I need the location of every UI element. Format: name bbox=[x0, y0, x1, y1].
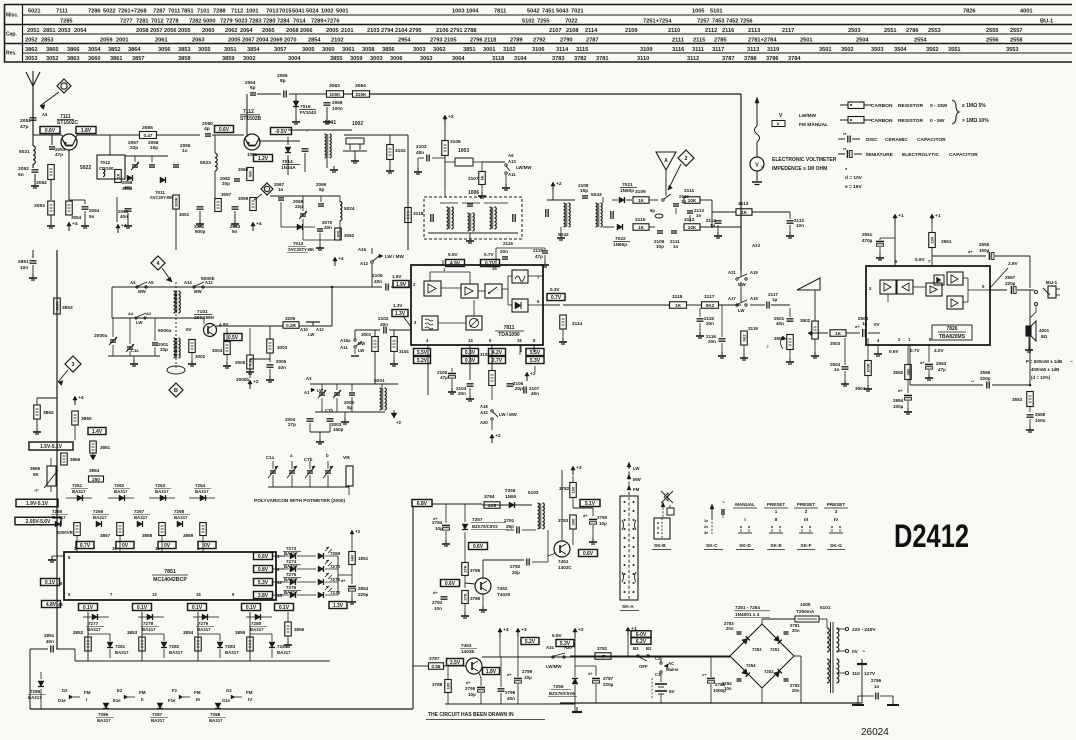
svg-text:40n: 40n bbox=[380, 322, 388, 327]
svg-text:7286: 7286 bbox=[88, 9, 101, 15]
svg-text:A23: A23 bbox=[752, 243, 761, 248]
svg-text:CARBON: CARBON bbox=[871, 118, 893, 124]
svg-text:10µ: 10µ bbox=[599, 521, 607, 526]
svg-text:d+: d+ bbox=[898, 388, 903, 393]
svg-text:3852: 3852 bbox=[108, 47, 121, 53]
svg-text:5022: 5022 bbox=[80, 165, 91, 171]
svg-text:d+: d+ bbox=[968, 249, 973, 254]
svg-text:MANUAL: MANUAL bbox=[735, 502, 755, 507]
svg-text:PRESET: PRESET bbox=[797, 502, 816, 507]
svg-text:5022: 5022 bbox=[103, 9, 116, 15]
svg-text:3860: 3860 bbox=[81, 416, 92, 422]
svg-text:1K5: 1K5 bbox=[488, 503, 497, 508]
svg-text:7288: 7288 bbox=[210, 712, 221, 717]
svg-text:3059: 3059 bbox=[238, 196, 249, 201]
svg-text:FM: FM bbox=[84, 690, 91, 695]
svg-text:0.7V: 0.7V bbox=[551, 295, 562, 301]
svg-text:22p: 22p bbox=[295, 204, 303, 209]
svg-text:4: 4 bbox=[156, 261, 159, 267]
svg-text:E2: E2 bbox=[117, 688, 123, 693]
svg-text:3785: 3785 bbox=[470, 568, 481, 573]
svg-text:7272: 7272 bbox=[330, 590, 341, 595]
svg-text:CTb: CTb bbox=[325, 408, 333, 413]
svg-text:5n: 5n bbox=[18, 172, 24, 178]
svg-text:20n: 20n bbox=[792, 688, 800, 693]
svg-text:FM: FM bbox=[139, 690, 146, 695]
svg-text:110 - 127V: 110 - 127V bbox=[852, 671, 876, 677]
svg-text:+4: +4 bbox=[503, 627, 509, 633]
svg-text:+4: +4 bbox=[256, 221, 262, 227]
svg-text:5043: 5043 bbox=[556, 9, 569, 15]
svg-text:2551: 2551 bbox=[884, 28, 897, 34]
svg-text:3865: 3865 bbox=[30, 466, 41, 471]
svg-text:2052: 2052 bbox=[18, 166, 29, 172]
svg-text:6.2V: 6.2V bbox=[636, 639, 647, 645]
svg-text:0.6V: 0.6V bbox=[219, 127, 230, 133]
svg-text:7280: 7280 bbox=[251, 621, 262, 626]
svg-text:Cap.: Cap. bbox=[6, 32, 17, 38]
svg-text:MC14042BCP: MC14042BCP bbox=[153, 577, 187, 583]
svg-text:3056: 3056 bbox=[158, 47, 171, 53]
svg-text:7269: 7269 bbox=[330, 551, 341, 556]
svg-text:250: 250 bbox=[92, 477, 100, 482]
svg-text:2785: 2785 bbox=[714, 38, 727, 44]
svg-text:A11: A11 bbox=[508, 172, 516, 177]
svg-text:15: 15 bbox=[196, 592, 201, 597]
svg-text:1n: 1n bbox=[696, 213, 702, 218]
svg-text:III: III bbox=[196, 697, 200, 702]
svg-text:7277: 7277 bbox=[88, 621, 99, 626]
svg-text:3783: 3783 bbox=[552, 56, 565, 62]
svg-text:3854: 3854 bbox=[183, 630, 194, 635]
svg-text:3055: 3055 bbox=[198, 47, 211, 53]
svg-text:7264: 7264 bbox=[195, 483, 206, 488]
svg-text:7012: 7012 bbox=[151, 19, 164, 25]
svg-text:3864: 3864 bbox=[89, 468, 100, 473]
svg-text:+1: +1 bbox=[898, 213, 904, 219]
svg-text:PRESET: PRESET bbox=[767, 502, 786, 507]
svg-text:d = 10V: d = 10V bbox=[845, 175, 863, 181]
svg-text:2790: 2790 bbox=[597, 515, 608, 520]
svg-text:LW / MW: LW / MW bbox=[385, 254, 404, 259]
svg-text:1N60p: 1N60p bbox=[613, 242, 627, 247]
svg-text:7278: 7278 bbox=[143, 621, 154, 626]
svg-text:1.9V-5.1V: 1.9V-5.1V bbox=[26, 501, 49, 507]
svg-text:3004: 3004 bbox=[288, 56, 301, 62]
svg-text:3862: 3862 bbox=[25, 47, 38, 53]
svg-text:2854: 2854 bbox=[358, 586, 369, 591]
svg-text:7015: 7015 bbox=[279, 9, 292, 15]
svg-text:10µ: 10µ bbox=[524, 675, 532, 680]
svg-text:1n: 1n bbox=[182, 148, 188, 153]
svg-text:≤ 1MΩ 5%: ≤ 1MΩ 5% bbox=[962, 103, 986, 109]
svg-text:7285: 7285 bbox=[60, 19, 73, 25]
svg-text:0V: 0V bbox=[852, 649, 859, 655]
svg-text:2791: 2791 bbox=[504, 518, 515, 523]
svg-text:FM: FM bbox=[246, 690, 253, 695]
svg-text:7112: 7112 bbox=[231, 9, 243, 15]
svg-text:FM: FM bbox=[633, 487, 640, 492]
svg-text:3855: 3855 bbox=[235, 630, 246, 635]
svg-text:15: 15 bbox=[277, 593, 282, 598]
svg-text:VR: VR bbox=[343, 455, 350, 461]
svg-text:7251: 7251 bbox=[770, 647, 780, 652]
svg-text:1003: 1003 bbox=[452, 9, 465, 15]
svg-text:3788: 3788 bbox=[744, 56, 757, 62]
svg-text:100: 100 bbox=[570, 486, 575, 493]
svg-text:3787: 3787 bbox=[722, 56, 735, 62]
svg-text:A11: A11 bbox=[340, 345, 348, 350]
svg-text:5001: 5001 bbox=[374, 378, 385, 384]
svg-text:4001: 4001 bbox=[1020, 9, 1033, 15]
svg-text:IMPEDENCE ≥ 1M OHM: IMPEDENCE ≥ 1M OHM bbox=[772, 166, 827, 172]
svg-text:3853: 3853 bbox=[127, 630, 138, 635]
svg-text:3784: 3784 bbox=[484, 494, 495, 499]
svg-text:2068: 2068 bbox=[286, 28, 299, 34]
svg-text:3660: 3660 bbox=[88, 56, 101, 62]
svg-text:0.7V: 0.7V bbox=[485, 261, 496, 267]
svg-text:2796: 2796 bbox=[505, 690, 516, 695]
svg-text:2067: 2067 bbox=[242, 38, 255, 44]
svg-text:1005: 1005 bbox=[800, 602, 811, 607]
svg-text:1.4V: 1.4V bbox=[92, 429, 103, 435]
svg-text:T250mA: T250mA bbox=[796, 609, 815, 614]
svg-text:7279: 7279 bbox=[198, 621, 209, 626]
svg-text:2556: 2556 bbox=[980, 370, 991, 375]
svg-text:1002: 1002 bbox=[352, 121, 363, 127]
svg-text:3003: 3003 bbox=[413, 47, 426, 53]
svg-text:2006: 2006 bbox=[276, 359, 287, 364]
svg-text:3110: 3110 bbox=[637, 56, 649, 62]
svg-text:3206: 3206 bbox=[285, 316, 296, 321]
svg-text:20n: 20n bbox=[458, 391, 466, 396]
svg-text:2554: 2554 bbox=[914, 38, 927, 44]
svg-text:5000: 5000 bbox=[203, 19, 216, 25]
svg-text:5024: 5024 bbox=[306, 9, 319, 15]
svg-text:C1a: C1a bbox=[131, 348, 139, 353]
svg-text:d+: d+ bbox=[466, 680, 471, 685]
svg-text:3112: 3112 bbox=[684, 217, 695, 223]
svg-text:3060: 3060 bbox=[322, 47, 335, 53]
svg-text:2066: 2066 bbox=[300, 28, 313, 34]
svg-text:1n: 1n bbox=[673, 244, 679, 249]
svg-text:BA317: BA317 bbox=[155, 489, 169, 494]
svg-text:3005: 3005 bbox=[235, 360, 246, 365]
svg-text:CAPACITOR: CAPACITOR bbox=[949, 152, 978, 158]
svg-text:6p: 6p bbox=[650, 208, 655, 213]
svg-text:1n: 1n bbox=[874, 684, 880, 689]
svg-text:3783: 3783 bbox=[558, 518, 569, 523]
svg-text:27p: 27p bbox=[288, 422, 296, 427]
svg-text:1006: 1006 bbox=[468, 190, 479, 196]
svg-text:+2: +2 bbox=[556, 181, 562, 187]
svg-text:2057: 2057 bbox=[150, 28, 163, 34]
svg-text:2061: 2061 bbox=[155, 38, 168, 44]
svg-text:7021: 7021 bbox=[571, 9, 584, 15]
svg-text:3118: 3118 bbox=[492, 56, 504, 62]
svg-text:A21: A21 bbox=[728, 270, 736, 275]
svg-text:3058: 3058 bbox=[362, 47, 375, 53]
svg-text:BA317: BA317 bbox=[250, 627, 264, 632]
svg-text:2.05V-5.6V: 2.05V-5.6V bbox=[26, 519, 51, 525]
svg-text:3006: 3006 bbox=[390, 56, 403, 62]
svg-text:d+: d+ bbox=[583, 513, 588, 518]
svg-text:3782: 3782 bbox=[574, 56, 587, 62]
svg-text:3002: 3002 bbox=[243, 56, 256, 62]
svg-text:5n: 5n bbox=[232, 229, 238, 234]
svg-text:A12: A12 bbox=[360, 261, 369, 266]
svg-text:3111: 3111 bbox=[692, 47, 704, 53]
svg-text:3001: 3001 bbox=[361, 332, 372, 337]
svg-text:LW: LW bbox=[738, 308, 745, 313]
svg-text:0V: 0V bbox=[204, 543, 211, 549]
svg-text:0.56: 0.56 bbox=[432, 664, 441, 669]
svg-text:3.8V: 3.8V bbox=[258, 593, 269, 599]
svg-text:d+: d+ bbox=[341, 578, 346, 583]
svg-text:3106: 3106 bbox=[532, 47, 545, 53]
svg-text:12: 12 bbox=[277, 580, 282, 585]
svg-text:FV1043: FV1043 bbox=[300, 110, 316, 115]
svg-text:5023: 5023 bbox=[235, 19, 248, 25]
svg-text:d+: d+ bbox=[920, 360, 925, 365]
svg-text:FM: FM bbox=[194, 690, 201, 695]
svg-text:POLYVARICON WITH POTMETER: POLYVARICON WITH POTMETER (2000) bbox=[254, 498, 346, 504]
svg-text:1K: 1K bbox=[115, 173, 120, 178]
svg-text:3003: 3003 bbox=[277, 345, 288, 350]
svg-text:2005: 2005 bbox=[326, 28, 339, 34]
svg-text:ELECTROLYTIC: ELECTROLYTIC bbox=[902, 152, 940, 158]
svg-text:BA317: BA317 bbox=[115, 650, 129, 655]
svg-text:P = 500mW ± 1dB: P = 500mW ± 1dB bbox=[1026, 359, 1062, 364]
svg-text:3858: 3858 bbox=[142, 533, 153, 538]
svg-text:2062: 2062 bbox=[225, 28, 238, 34]
svg-text:22p: 22p bbox=[130, 145, 138, 150]
svg-text:2063: 2063 bbox=[192, 38, 205, 44]
svg-text:4.8V: 4.8V bbox=[46, 602, 57, 608]
svg-text:AC: AC bbox=[668, 661, 675, 666]
svg-text:A16: A16 bbox=[358, 247, 367, 252]
svg-text:D2412: D2412 bbox=[894, 518, 969, 554]
svg-text:7263: 7263 bbox=[155, 483, 166, 488]
svg-text:3786: 3786 bbox=[766, 56, 779, 62]
svg-text:BA317: BA317 bbox=[151, 718, 165, 723]
svg-text:BZX79/C8V2: BZX79/C8V2 bbox=[472, 524, 498, 529]
svg-text:1005: 1005 bbox=[692, 9, 705, 15]
svg-text:3114: 3114 bbox=[572, 321, 583, 326]
svg-text:C2: C2 bbox=[655, 656, 661, 661]
svg-text:SK-A: SK-A bbox=[622, 604, 634, 610]
svg-text:2119: 2119 bbox=[533, 248, 543, 253]
svg-text:3866: 3866 bbox=[70, 457, 81, 462]
svg-text:d+: d+ bbox=[855, 324, 860, 329]
svg-text:7251+7254: 7251+7254 bbox=[643, 19, 672, 25]
svg-text:2786: 2786 bbox=[871, 678, 882, 683]
svg-text:27K: 27K bbox=[462, 565, 467, 572]
svg-text:2557: 2557 bbox=[1010, 28, 1023, 34]
svg-text:2058: 2058 bbox=[136, 28, 149, 34]
svg-text:470: 470 bbox=[335, 230, 340, 237]
svg-text:3005: 3005 bbox=[302, 47, 315, 53]
svg-text:7280: 7280 bbox=[263, 19, 276, 25]
svg-text:A19: A19 bbox=[750, 296, 758, 301]
svg-text:7282: 7282 bbox=[169, 644, 180, 649]
svg-text:LW: LW bbox=[308, 332, 314, 337]
svg-text:2110: 2110 bbox=[668, 28, 680, 34]
svg-text:3856: 3856 bbox=[294, 627, 305, 632]
svg-text:A4: A4 bbox=[130, 280, 136, 285]
svg-text:2055: 2055 bbox=[178, 28, 191, 34]
svg-text:SK-B: SK-B bbox=[654, 543, 666, 549]
svg-text:3: 3 bbox=[71, 362, 74, 368]
svg-text:2005: 2005 bbox=[228, 38, 241, 44]
svg-text:2107: 2107 bbox=[549, 28, 562, 34]
svg-text:0.6V: 0.6V bbox=[473, 544, 484, 550]
svg-text:7811: 7811 bbox=[494, 9, 506, 15]
svg-text:0.47: 0.47 bbox=[144, 133, 153, 138]
svg-text:6-0V: 6-0V bbox=[636, 632, 647, 638]
svg-text:BA317: BA317 bbox=[97, 718, 111, 723]
svg-text:1µ: 1µ bbox=[772, 297, 778, 302]
svg-text:5n: 5n bbox=[89, 214, 95, 219]
svg-text:7256: 7256 bbox=[505, 488, 516, 493]
svg-text:b: b bbox=[326, 453, 329, 458]
svg-text:BA317: BA317 bbox=[225, 650, 239, 655]
svg-text:5101: 5101 bbox=[710, 9, 723, 15]
svg-text:220K: 220K bbox=[356, 92, 368, 97]
svg-text:FM MANUAL: FM MANUAL bbox=[799, 122, 828, 128]
svg-text:BA317: BA317 bbox=[72, 489, 86, 494]
svg-text:100K: 100K bbox=[173, 197, 178, 207]
svg-text:47p: 47p bbox=[20, 124, 28, 130]
svg-text:2551: 2551 bbox=[862, 232, 873, 237]
svg-text:SK-C: SK-C bbox=[706, 543, 718, 549]
svg-text:~: ~ bbox=[862, 649, 865, 655]
svg-text:27K: 27K bbox=[462, 593, 467, 600]
svg-text:PRESET: PRESET bbox=[827, 502, 846, 507]
svg-text:2056: 2056 bbox=[164, 28, 177, 34]
svg-text:TBA820MS: TBA820MS bbox=[939, 334, 966, 340]
svg-text:7285: 7285 bbox=[30, 689, 41, 694]
svg-text:1.9V: 1.9V bbox=[396, 282, 407, 288]
svg-text:3866: 3866 bbox=[67, 47, 80, 53]
svg-text:2504: 2504 bbox=[856, 38, 869, 44]
svg-text:A24: A24 bbox=[546, 645, 554, 650]
svg-text:7261+7268: 7261+7268 bbox=[118, 9, 146, 15]
svg-text:F1e: F1e bbox=[168, 698, 176, 703]
svg-text:4p: 4p bbox=[204, 126, 210, 132]
svg-text:4.0V: 4.0V bbox=[934, 348, 945, 353]
svg-text:1003: 1003 bbox=[458, 148, 469, 154]
svg-text:d+: d+ bbox=[588, 671, 593, 676]
svg-text:3862: 3862 bbox=[43, 410, 54, 416]
svg-text:20n: 20n bbox=[500, 249, 508, 254]
svg-text:47µ: 47µ bbox=[440, 375, 448, 380]
svg-text:10n: 10n bbox=[796, 223, 804, 228]
svg-text:40n: 40n bbox=[324, 225, 332, 230]
svg-text:15p: 15p bbox=[580, 188, 588, 193]
svg-text:5000a: 5000a bbox=[158, 328, 172, 334]
svg-text:3052: 3052 bbox=[36, 180, 47, 186]
svg-text:B2: B2 bbox=[646, 646, 652, 651]
svg-text:A1: A1 bbox=[304, 390, 310, 395]
svg-text:3861: 3861 bbox=[100, 445, 111, 450]
svg-text:1002: 1002 bbox=[321, 9, 334, 15]
svg-text:SK-D: SK-D bbox=[739, 543, 751, 549]
svg-text:BA317: BA317 bbox=[195, 489, 209, 494]
svg-text:0V: 0V bbox=[164, 543, 171, 549]
svg-text:7277: 7277 bbox=[120, 19, 133, 25]
svg-text:3863: 3863 bbox=[67, 56, 80, 62]
svg-text:7255: 7255 bbox=[537, 19, 550, 25]
svg-text:2.9V: 2.9V bbox=[1008, 261, 1019, 266]
svg-text:7014: 7014 bbox=[293, 19, 306, 25]
svg-text:0.6V: 0.6V bbox=[45, 128, 56, 134]
svg-text:47p: 47p bbox=[55, 152, 63, 157]
svg-text:6.8V: 6.8V bbox=[417, 501, 428, 507]
svg-text:3064: 3064 bbox=[452, 56, 465, 62]
svg-text:G1e: G1e bbox=[222, 698, 231, 703]
svg-text:A18: A18 bbox=[480, 404, 488, 409]
svg-text:100: 100 bbox=[445, 682, 450, 689]
svg-text:+2: +2 bbox=[448, 114, 454, 120]
svg-text:2104: 2104 bbox=[395, 28, 408, 34]
svg-text:2787: 2787 bbox=[586, 38, 599, 44]
svg-text:7015: 7015 bbox=[300, 104, 311, 109]
svg-text:3858: 3858 bbox=[178, 56, 191, 62]
svg-text:BA317: BA317 bbox=[142, 627, 156, 632]
svg-text:3113: 3113 bbox=[747, 47, 759, 53]
svg-text:B: B bbox=[174, 388, 178, 394]
svg-text:2051: 2051 bbox=[27, 28, 40, 34]
svg-text:0.7V: 0.7V bbox=[80, 543, 91, 549]
svg-text:7851: 7851 bbox=[164, 569, 176, 575]
svg-text:2558: 2558 bbox=[1010, 38, 1023, 44]
svg-text:2792: 2792 bbox=[533, 38, 546, 44]
svg-text:7284: 7284 bbox=[277, 19, 290, 25]
svg-text:3055: 3055 bbox=[142, 125, 153, 131]
svg-text:10K: 10K bbox=[688, 225, 697, 230]
svg-text:2103: 2103 bbox=[367, 28, 380, 34]
svg-text:2786: 2786 bbox=[906, 28, 919, 34]
svg-text:2: 2 bbox=[805, 509, 808, 514]
svg-text:+2: +2 bbox=[495, 433, 501, 439]
svg-text:1.5V-5.1V: 1.5V-5.1V bbox=[40, 444, 63, 450]
svg-text:1K: 1K bbox=[675, 303, 682, 308]
svg-text:2059: 2059 bbox=[100, 38, 113, 44]
svg-text:BU-1: BU-1 bbox=[1040, 19, 1053, 25]
svg-text:(d = 10%): (d = 10%) bbox=[1031, 375, 1051, 380]
svg-text:-0.5V: -0.5V bbox=[275, 129, 288, 135]
svg-text:5024: 5024 bbox=[344, 206, 355, 211]
svg-text:5.1V: 5.1V bbox=[585, 501, 596, 507]
svg-text:2: 2 bbox=[684, 156, 687, 162]
svg-text:A9: A9 bbox=[508, 153, 514, 158]
svg-text:LW: LW bbox=[136, 320, 143, 325]
svg-text:3854: 3854 bbox=[247, 47, 260, 53]
svg-text:7112: 7112 bbox=[243, 109, 254, 115]
svg-text:40n: 40n bbox=[278, 365, 286, 370]
svg-text:2113: 2113 bbox=[748, 28, 760, 34]
svg-text:0.7V: 0.7V bbox=[484, 252, 495, 257]
svg-text:7013: 7013 bbox=[293, 241, 304, 246]
svg-text:0.1V: 0.1V bbox=[246, 605, 257, 611]
svg-text:25p: 25p bbox=[506, 524, 514, 529]
svg-text:1N34A: 1N34A bbox=[281, 165, 296, 170]
svg-text:2114: 2114 bbox=[585, 28, 598, 34]
svg-text:0.7V: 0.7V bbox=[910, 348, 921, 353]
svg-text:2788: 2788 bbox=[464, 28, 477, 34]
svg-text:1N60: 1N60 bbox=[505, 494, 517, 499]
